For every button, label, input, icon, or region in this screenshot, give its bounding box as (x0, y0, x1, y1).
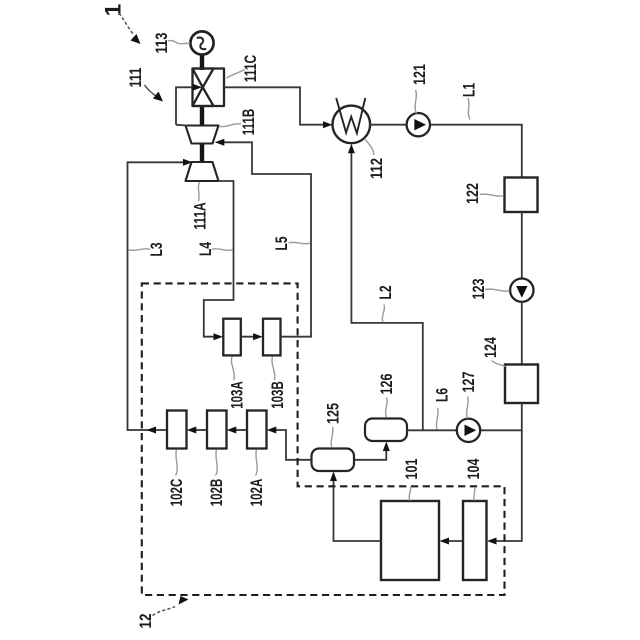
svg-text:103A: 103A (228, 381, 247, 409)
wire: 123 to box 124 (521, 302, 523, 365)
leader 104 (474, 487, 475, 501)
svg-text:127: 127 (459, 372, 478, 393)
svg-text:124: 124 (481, 337, 500, 358)
arrow into 126 bottom (383, 442, 390, 452)
arrow into 103A (214, 333, 224, 340)
heat exchanger 112 (333, 98, 371, 143)
box 103A (223, 319, 241, 356)
pump 123 (510, 279, 533, 302)
leader 111B (220, 124, 241, 127)
arrow into 102B (227, 427, 237, 434)
svg-text:104: 104 (464, 458, 483, 479)
leader 102A (256, 450, 258, 476)
wire L4: 111A outlet to 103A (204, 181, 234, 337)
arrow into 111B (215, 139, 225, 146)
arrow into 112 bottom (348, 144, 355, 154)
arrow into valve (193, 84, 203, 91)
svg-text:103B: 103B (268, 381, 287, 409)
leader 126 (386, 398, 388, 418)
svg-text:L1: L1 (460, 83, 479, 97)
valve 111C (193, 69, 225, 107)
leader 124 (492, 361, 506, 367)
arrow into 102C (187, 427, 197, 434)
wire L5: 103B up to 111B inlet (220, 142, 311, 336)
wire: 122 to pump 123 (521, 212, 523, 279)
wire: bypass to 111B top left (176, 124, 187, 127)
wire: 103A to 103B (241, 336, 258, 338)
leader L3 (129, 249, 151, 251)
wire: shaft valve to turbine 111B (200, 105, 204, 127)
generator 113 (190, 31, 213, 54)
svg-text:126: 126 (377, 374, 396, 395)
wire: 101 to 125 (334, 477, 382, 541)
pump 127 (457, 419, 480, 442)
leader L1 (468, 98, 470, 120)
arrow into 125 bottom (330, 472, 337, 482)
svg-text:L3: L3 (147, 243, 166, 257)
tank 125 (312, 449, 355, 472)
svg-text:112: 112 (367, 158, 386, 179)
box 104 (463, 501, 487, 580)
wire: 104 to 101 (444, 540, 463, 542)
turbine 111B (186, 126, 219, 144)
pump 121 (407, 113, 430, 136)
leader 125 (331, 427, 333, 448)
leader 123 (485, 289, 510, 291)
wire L1: pump 121 to box 122 (430, 125, 522, 178)
svg-text:111C: 111C (241, 55, 260, 83)
svg-text:111A: 111A (191, 202, 210, 230)
arrow into 101 (440, 538, 450, 545)
leader 127 (467, 397, 469, 419)
svg-text:121: 121 (410, 64, 429, 85)
svg-text:12: 12 (136, 614, 155, 629)
arrow into 102A (267, 427, 277, 434)
leader L4 (212, 249, 233, 251)
arrow into 111A (183, 159, 193, 166)
box 102A (247, 411, 267, 449)
arrow from 111 (145, 85, 157, 96)
leader 101 (409, 487, 411, 501)
arrow into 104 (487, 538, 497, 545)
box 102C (167, 411, 187, 449)
wire: 102A to 102B (231, 429, 247, 431)
wire: shaft turbine 111B to 111A (200, 143, 204, 164)
svg-text:125: 125 (324, 403, 343, 424)
svg-text:123: 123 (469, 279, 488, 300)
svg-text:111: 111 (126, 68, 145, 88)
box 101 (381, 501, 439, 580)
leader L5 (289, 242, 311, 244)
svg-text:122: 122 (463, 183, 482, 204)
wire L6: 126 to pump 127 and junction (407, 429, 457, 431)
box 122 (505, 178, 538, 213)
svg-text:L6: L6 (433, 388, 452, 402)
wire L3: 102C to 111A inlet (128, 162, 189, 430)
svg-text:111B: 111B (239, 109, 258, 136)
wire: shaft generator to valve (200, 54, 204, 71)
arrow into heat exchanger 112 (323, 121, 333, 128)
leader 111C (227, 70, 246, 79)
arrow from 1 (119, 13, 134, 35)
wire: 125 left to 102A (271, 430, 312, 460)
leader 121 (415, 90, 416, 114)
svg-text:L5: L5 (272, 237, 291, 251)
dashed boundary 12 (142, 283, 505, 595)
box 102B (207, 411, 227, 449)
wire: valve outlet to heat exchanger (224, 87, 328, 124)
svg-text:102C: 102C (167, 479, 186, 507)
wire: bypass valve inlet (176, 87, 193, 125)
leader 102C (176, 450, 178, 476)
svg-text:101: 101 (402, 459, 421, 480)
wire: 124 down to box 104 (492, 403, 522, 541)
wire: 102B to 102C (191, 429, 207, 431)
leader L6 (436, 408, 438, 429)
wire: 125 right to 126 (354, 447, 386, 460)
arrow from 12 (153, 607, 176, 616)
arrow on L3 near corner (147, 427, 157, 434)
leader 103B (272, 357, 275, 381)
leader 113 (168, 40, 190, 43)
leader 103A (231, 357, 234, 381)
svg-text:1: 1 (101, 4, 126, 17)
wire L2: junction up to 112 (351, 150, 422, 430)
svg-text:102A: 102A (247, 479, 266, 507)
leader 102B (216, 450, 218, 476)
turbine 111A (186, 162, 219, 181)
arrow into 103B (253, 333, 263, 340)
svg-text:L4: L4 (196, 242, 215, 256)
tank 126 (365, 419, 407, 442)
leader 111A (198, 182, 199, 201)
wire: 112 to pump 121 (370, 124, 406, 126)
svg-text:102B: 102B (207, 479, 226, 507)
box 103B (263, 319, 281, 356)
leader L2 (382, 305, 384, 323)
box 124 (505, 365, 538, 404)
svg-text:113: 113 (152, 33, 171, 54)
leader 112 (365, 139, 375, 156)
svg-text:L2: L2 (376, 286, 395, 300)
leader 122 (480, 194, 504, 196)
